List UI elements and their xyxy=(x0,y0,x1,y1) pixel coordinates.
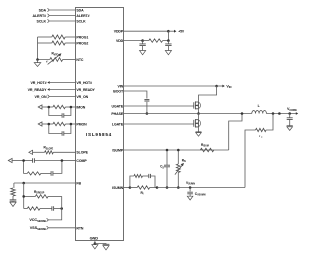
node PROG/NTC ground junction xyxy=(36,58,39,61)
node IMON right xyxy=(70,106,73,109)
ground below NTC junction xyxy=(37,60,39,63)
wire VDD xyxy=(124,40,143,42)
capacitor C_OUT xyxy=(289,114,291,118)
svg-text:PROG2: PROG2 xyxy=(76,41,88,45)
capacitor C_DRP bottom branch xyxy=(40,208,52,210)
ground AGND xyxy=(94,244,96,245)
wire droop left vertical xyxy=(23,183,25,209)
capacitor Cs sense xyxy=(166,150,168,165)
svg-text:VDDP: VDDP xyxy=(114,30,124,34)
node GND xyxy=(94,242,97,245)
capacitor C_FB xyxy=(12,196,14,200)
svg-text:ISL95854: ISL95854 xyxy=(86,132,112,137)
svg-text:IMON: IMON xyxy=(76,105,85,109)
node Rn bottom xyxy=(177,186,180,189)
node output cap tap xyxy=(288,112,291,115)
wire PMON xyxy=(42,123,49,125)
wire BOOT xyxy=(124,91,147,99)
node phase sense tap xyxy=(241,112,244,115)
node FB junction xyxy=(22,182,25,185)
resistor R_PMON xyxy=(53,122,66,125)
node VDD junction xyxy=(141,39,144,42)
svg-text:GND: GND xyxy=(90,235,99,240)
thermistor Rn sense xyxy=(177,150,179,164)
resistor R_IMON xyxy=(53,105,66,108)
svg-text:VR_HOT#: VR_HOT# xyxy=(30,81,46,85)
wire ISUMN to VSUMN xyxy=(157,187,245,189)
svg-text:VR_HOT#: VR_HOT# xyxy=(76,81,92,85)
svg-text:PROG1: PROG1 xyxy=(76,35,88,39)
resistor ro DCR sense xyxy=(256,128,267,131)
wire SDA to pin xyxy=(50,9,76,11)
wire ISUMP line xyxy=(124,149,229,151)
resistor R_PROG2 xyxy=(52,41,65,45)
wire VIN to Q1 drain xyxy=(199,86,217,102)
connector arrow COMP net xyxy=(8,158,12,162)
svg-text:ISUMP: ISUMP xyxy=(112,148,123,152)
node IMON left xyxy=(48,106,51,109)
node VSUMN xyxy=(189,186,192,189)
wire Q2 source to ground xyxy=(198,127,200,132)
wire IMON xyxy=(42,106,49,108)
wire VIN rail xyxy=(124,85,217,87)
wire PHASE line xyxy=(124,113,252,115)
svg-text:+5V: +5V xyxy=(178,30,185,34)
connector arrow PMON out xyxy=(38,122,42,126)
wire LGATE xyxy=(124,123,194,125)
capacitor C_BOOT xyxy=(144,99,149,101)
node COMP right xyxy=(61,159,64,162)
resistor+capacitor Ri parallel branch xyxy=(130,176,134,188)
ground Q2 source xyxy=(196,131,202,133)
node VIN junction xyxy=(215,85,218,88)
svg-text:VSSSENSE: VSSSENSE xyxy=(30,226,47,231)
wire VSUMN to ro xyxy=(245,130,256,188)
wire droop right vertical to VCC_SENSE xyxy=(48,196,61,220)
svg-text:SCLK: SCLK xyxy=(76,19,86,23)
svg-text:VR_READY: VR_READY xyxy=(28,88,48,92)
node PMON right xyxy=(70,123,73,126)
svg-text:VR_ON: VR_ON xyxy=(35,95,47,99)
wire PROG2 xyxy=(38,42,52,44)
svg-text:L: L xyxy=(258,104,260,108)
wire COMP to pin xyxy=(62,160,76,162)
svg-text:PHASE: PHASE xyxy=(111,112,123,116)
node Cs bottom xyxy=(166,186,169,189)
wire Q1 source to phase xyxy=(198,109,200,114)
svg-text:RTN: RTN xyxy=(76,226,84,230)
svg-text:VDD: VDD xyxy=(116,39,124,43)
wire inductor to Vcore xyxy=(266,113,296,115)
node droop branch left xyxy=(22,195,25,198)
capacitor C_VDDP xyxy=(167,41,169,44)
svg-text:SDA: SDA xyxy=(76,8,84,12)
ground below C_VDD xyxy=(142,46,144,51)
svg-text:FB: FB xyxy=(76,181,81,185)
wire VR_ON xyxy=(50,96,76,98)
node phase at Q1/Q2 xyxy=(197,112,200,115)
svg-text:VIN: VIN xyxy=(117,84,123,88)
resistor R_COMP bottom branch xyxy=(24,161,28,174)
node Ri right xyxy=(156,186,159,189)
ground below C_OUT xyxy=(287,127,293,131)
wire VSS_SENSE to RTN pin xyxy=(49,227,76,229)
svg-text:SCLK: SCLK xyxy=(37,19,47,23)
svg-text:UGATE: UGATE xyxy=(112,104,124,108)
resistor R_VDD xyxy=(143,40,149,42)
node BOOT cap on phase xyxy=(146,112,149,115)
wire Q2 drain to phase xyxy=(198,114,200,120)
wire UGATE xyxy=(124,105,194,107)
svg-text:VR_ON: VR_ON xyxy=(76,95,88,99)
wire COMP left xyxy=(12,160,24,162)
connector arrow SLOPE xyxy=(29,150,33,154)
svg-text:NTC: NTC xyxy=(76,58,84,62)
wire VDDP rail xyxy=(124,30,169,32)
svg-text:VCCSENSE: VCCSENSE xyxy=(29,218,46,223)
node Cs top xyxy=(166,149,169,152)
wire ALERT# to pin xyxy=(50,15,76,17)
wire NTC to pin xyxy=(63,59,76,61)
svg-text:BOOT: BOOT xyxy=(113,89,124,93)
resistor R_PROG1 xyxy=(52,35,65,39)
wire SLOPE xyxy=(32,151,44,153)
capacitor C_VDD xyxy=(142,41,144,44)
capacitor C_IMON parallel loop xyxy=(49,107,62,116)
transistor Q2 low-side NMOS xyxy=(194,119,199,127)
capacitor C_COMP2 top branch xyxy=(24,160,33,162)
svg-text:LGATE: LGATE xyxy=(112,122,124,126)
IC U1 ISL95854 body xyxy=(76,8,124,241)
node PMON left xyxy=(48,123,51,126)
ground below C_VSUMN xyxy=(189,194,191,196)
net arrow VIN xyxy=(217,85,223,87)
wire PROG bus vertical xyxy=(38,37,50,60)
node output mid xyxy=(278,112,281,115)
capacitor C_PMON parallel loop xyxy=(49,124,62,134)
svg-text:SDA: SDA xyxy=(39,8,47,12)
wire VR_READY xyxy=(50,89,76,91)
svg-text:ISUMN: ISUMN xyxy=(112,186,123,190)
node output left xyxy=(272,112,275,115)
capacitor C_VSUMN xyxy=(189,188,191,192)
resistor R_ISUM xyxy=(200,148,214,151)
wire PROG1 xyxy=(38,36,52,38)
ground below C_VDDP xyxy=(167,46,169,51)
net arrow +5V xyxy=(168,30,174,32)
thermistor R_NTC xyxy=(50,58,63,62)
resistor R_DROOP top branch xyxy=(24,195,36,197)
ground PGND xyxy=(95,243,106,246)
svg-text:COMP: COMP xyxy=(76,159,87,163)
node VDDP junction xyxy=(167,30,170,33)
wire GND pin stub xyxy=(94,241,96,244)
wire VR_HOT# xyxy=(50,82,76,84)
wire C_BOOT to phase xyxy=(146,102,148,114)
resistor R_FB to ground xyxy=(13,183,15,188)
connector arrow IMON out xyxy=(38,105,42,109)
resistor Ri xyxy=(130,187,137,189)
svg-text:ALERT#: ALERT# xyxy=(76,14,89,18)
ground below C_FB xyxy=(12,200,14,203)
wire Risum to phase tap xyxy=(229,114,242,151)
net arrow V_CORE xyxy=(296,112,298,115)
svg-text:VR_READY: VR_READY xyxy=(76,88,95,92)
svg-text:PMON: PMON xyxy=(76,122,87,126)
node droop branch right xyxy=(60,207,63,210)
node Ri left xyxy=(129,186,132,189)
capacitor C_COMP1 bottom branch xyxy=(41,172,51,174)
node Rn top xyxy=(177,149,180,152)
resistor R_DRP2 bottom branch xyxy=(24,208,28,210)
resistor R_SLOPE xyxy=(45,151,54,154)
wire VDDP to VDD vertical xyxy=(167,31,169,40)
wire SCLK to pin xyxy=(50,20,76,22)
node COMP left xyxy=(22,159,25,162)
transistor Q1 high-side NMOS xyxy=(194,101,199,109)
inductor L xyxy=(252,111,267,114)
wire ISUMN from pin xyxy=(124,187,130,189)
svg-text:ALERT#: ALERT# xyxy=(33,14,47,18)
wire ro to output xyxy=(266,114,273,131)
wire FB from pin xyxy=(14,182,76,184)
svg-text:SLOPE: SLOPE xyxy=(76,151,88,155)
node VDD filter right xyxy=(167,39,170,42)
